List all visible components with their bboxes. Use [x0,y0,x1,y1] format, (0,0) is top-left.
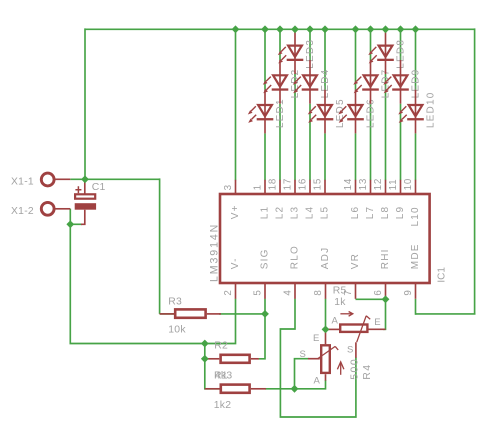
wire V+ left vertical to X1-1 [84,28,86,179]
trimmer potentiometer R5 1k [326,285,386,358]
junction X1-1 node [81,175,89,183]
wire LED3 anode column [0,0,1,1]
wire V+ right edge down to MODE net [474,28,476,314]
svg-text:4: 4 [283,289,294,295]
wire LED4 cathode column to IC pin [309,104,311,181]
junction R4 wiper node [291,385,299,393]
svg-text:ADJ: ADJ [320,247,331,270]
resistor R2 4k3 [205,341,259,382]
svg-text:LED10: LED10 [426,92,437,129]
IC1 top pin 16 (L4) stub [298,178,316,219]
junction GND node B [201,355,209,363]
LED LED8 [368,30,406,74]
svg-text:16: 16 [298,178,309,191]
wire LED1 cathode column to IC pin [264,133,266,180]
IC1 top pin 11 (L9) stub [388,179,406,220]
wire LED5 anode column [324,29,326,89]
junction V+ rail at x=235.5 [232,25,240,33]
wire RLO pin4 route to R5 wiper [280,299,356,417]
wire LED10 anode column [415,29,417,89]
wire GND from X1-2 down and across to V- pin2 [70,209,235,344]
capacitor C1 (polarized) [75,179,106,224]
svg-text:SIG: SIG [260,248,271,269]
svg-text:L5: L5 [320,206,331,220]
svg-text:10k: 10k [168,324,186,335]
svg-text:R4: R4 [361,363,373,379]
IC1 bottom pin 6 (RHI) stub [373,248,391,298]
svg-text:L2: L2 [275,206,286,220]
svg-text:V+: V+ [230,204,241,219]
wire R1 right to node R4 wiper [265,388,294,390]
LED LED7 [353,60,391,104]
IC1 top pin 14 (L6) stub [343,178,361,219]
wire V+ top rail [85,28,475,30]
svg-text:3: 3 [223,184,234,190]
LED LED3 [278,30,316,74]
wire VR pin7 to RHI pin6 [356,298,386,300]
IC1 top pin 13 (L7) stub [358,178,376,219]
svg-text:13: 13 [358,178,369,191]
IC1 bottom pin 9 (MDE) stub [403,243,421,298]
wire LED4 anode column [309,29,311,60]
svg-text:LM3914N: LM3914N [209,223,221,282]
svg-text:6: 6 [373,289,384,295]
IC1 bottom pin 8 (ADJ) stub [313,247,331,299]
wire LED10 cathode column to IC pin [415,133,417,180]
svg-text:R3: R3 [168,296,182,307]
svg-text:9: 9 [403,289,414,295]
IC1 bottom pin 4 (RLO) stub [283,245,301,299]
svg-text:RHI: RHI [380,248,391,269]
wire LED8 anode column [0,0,1,1]
junction V+ rail at x=355.5 [352,25,360,33]
junction GND node A [201,340,209,348]
junction V+ rail at x=280 [276,25,284,33]
wire LED7 cathode column to IC pin [370,104,372,181]
wire GND branch to C1 minus [70,223,82,225]
junction SIG node [261,310,269,318]
svg-text:L1: L1 [260,206,271,220]
svg-text:MDE: MDE [410,243,421,269]
IC1 name label [436,267,447,283]
LED LED1 [248,90,286,134]
svg-text:L7: L7 [365,206,376,220]
resistor R3 10k [160,296,221,335]
junction RHI node [382,295,390,303]
wire LED1 anode column [264,29,266,89]
svg-text:R5: R5 [333,285,347,296]
svg-text:10: 10 [403,178,414,191]
LED LED10 [398,90,436,134]
IC1 bottom pin 2 (V-) stub [223,257,241,298]
junction V+ rail at x=310 [306,25,314,33]
IC1 top pin 3 (V+) stub [223,180,241,220]
IC1 value label LM3914N [209,223,221,282]
LED LED4 [293,60,331,104]
wire vertical down to R3 left [160,178,175,314]
svg-text:C1: C1 [92,182,106,193]
svg-text:E: E [374,317,380,328]
svg-text:12: 12 [373,178,384,191]
wire MODE pin9 vertical [415,299,417,315]
resistor R1 1k2 [205,370,266,411]
svg-text:X1-2: X1-2 [11,206,34,217]
svg-text:A: A [314,375,321,386]
IC1 top pin 15 (L5) stub [313,178,331,219]
LED LED5 [308,90,346,134]
IC1 top pin 18 (L2) stub [268,178,286,219]
svg-text:E: E [313,333,319,344]
svg-text:8: 8 [313,289,324,295]
junction V+ rail at x=385.5 [382,25,390,33]
wire R3 right to SIG pin5 [219,313,265,315]
svg-text:L10: L10 [410,206,421,226]
LED LED2 [263,60,301,104]
trimmer potentiometer R4 500 [300,329,373,386]
wire GND down dot1 to R1 left [205,344,220,389]
svg-text:VR: VR [350,253,361,269]
svg-text:15: 15 [313,178,324,191]
wire LED9 anode column [400,29,402,60]
svg-text:S: S [300,349,306,360]
wire LED3 cathode column to IC pin [294,74,296,180]
connector pin X1-1 [11,173,70,188]
IC1 top pin 12 (L8) stub [373,178,391,219]
svg-text:18: 18 [268,178,279,191]
svg-text:5: 5 [253,289,264,295]
wire LED7 anode column [370,29,372,60]
svg-text:X1-1: X1-1 [11,177,34,188]
svg-text:L6: L6 [350,206,361,220]
IC1 bottom pin 5 (SIG) stub [253,248,271,298]
wire LED2 anode column [279,29,281,60]
svg-text:1k2: 1k2 [214,400,232,411]
IC1 top pin 17 (L3) stub [283,178,301,219]
svg-text:L9: L9 [395,206,406,220]
svg-text:11: 11 [388,179,399,191]
wire LED5 cathode column to IC pin [324,133,326,180]
svg-text:2: 2 [223,289,234,295]
junction GND/C1 node [66,220,74,228]
IC1 top pin 1 (L1) stub [253,180,271,220]
svg-text:L3: L3 [290,206,301,220]
op-amp IC1 LM3914N body [220,194,430,283]
svg-text:R1: R1 [214,370,228,381]
svg-text:A: A [332,315,339,326]
svg-text:RLO: RLO [290,245,301,269]
LED LED9 [383,60,421,104]
junction ADJ node [322,326,330,334]
wire R4 A to node [295,380,326,389]
svg-text:S: S [347,344,353,355]
junction V+ rail at x=415.5 [412,25,420,33]
svg-text:17: 17 [283,178,294,191]
wire LED6 cathode column to IC pin [355,133,357,180]
wire V+ pin3 vertical [235,29,237,180]
junction V+ rail at x=325 [321,25,329,33]
IC1 top pin 10 (L10) stub [403,178,421,227]
wire RHI node down to R5.E [383,299,386,329]
IC1 bottom pin 7 (VR) stub [343,253,361,299]
wire LED6 anode column [355,29,357,89]
svg-text:R2: R2 [214,341,228,352]
svg-text:1k: 1k [334,297,346,308]
svg-text:14: 14 [343,178,354,191]
wire X1-1 to R3 horizontal [70,178,159,180]
svg-text:500: 500 [349,358,361,380]
svg-text:IC1: IC1 [436,267,447,283]
LED LED6 [338,90,376,134]
wire LED8 cathode column to IC pin [385,74,387,180]
wire ADJ pin8 down to R5.A / R4.E node [325,299,327,330]
wire R4 wiper vertical [295,359,309,389]
connector pin X1-2 [11,202,70,217]
junction V+ rail at x=370.5 [367,25,375,33]
junction V+ rail at x=295 [291,25,299,33]
wire LED2 cathode column to IC pin [279,104,281,181]
svg-text:1: 1 [253,184,264,190]
svg-text:L8: L8 [380,206,391,220]
junction V+ rail at x=265 [261,25,269,33]
svg-text:L4: L4 [305,206,316,220]
wire SIG pin5 vertical down to R2 [259,299,265,359]
svg-text:V-: V- [230,257,241,269]
wire LED9 cathode column to IC pin [400,104,402,181]
wire MODE pin9 horizontal [416,313,476,315]
junction V+ rail at x=400.5 [397,25,405,33]
